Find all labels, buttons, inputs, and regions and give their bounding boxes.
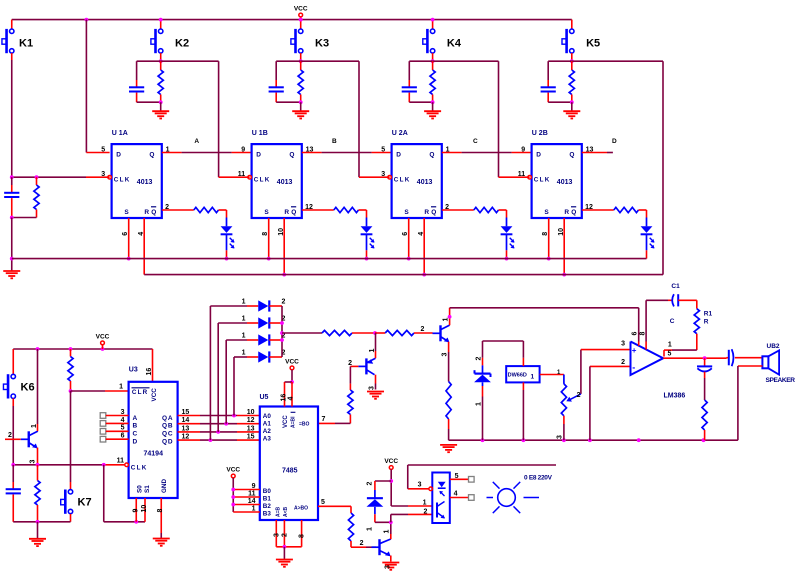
svg-text:1: 1 xyxy=(242,298,246,305)
svg-text:4013: 4013 xyxy=(277,179,293,186)
svg-text:VCC: VCC xyxy=(226,467,240,474)
svg-text:2: 2 xyxy=(421,326,425,333)
svg-text:A2: A2 xyxy=(263,428,272,435)
svg-text:QA: QA xyxy=(162,415,173,422)
svg-text:B2: B2 xyxy=(263,503,272,510)
svg-text:U5: U5 xyxy=(260,394,269,401)
svg-text:Q: Q xyxy=(569,152,574,159)
svg-text:U3: U3 xyxy=(129,366,138,373)
svg-text:2: 2 xyxy=(360,540,364,547)
svg-text:6: 6 xyxy=(632,332,639,336)
svg-text:CLK: CLK xyxy=(114,177,131,184)
svg-text:7485: 7485 xyxy=(282,467,298,474)
svg-text:3: 3 xyxy=(273,533,280,537)
svg-text:15: 15 xyxy=(247,434,255,441)
svg-text:C: C xyxy=(133,431,138,438)
svg-text:B3: B3 xyxy=(263,511,272,518)
svg-text:9: 9 xyxy=(241,146,245,153)
svg-text:4013: 4013 xyxy=(137,179,153,186)
svg-text:2: 2 xyxy=(577,392,581,399)
svg-text:R: R xyxy=(284,209,289,216)
svg-text:5: 5 xyxy=(668,351,672,358)
svg-text:11: 11 xyxy=(238,171,246,178)
svg-text:5: 5 xyxy=(121,425,125,432)
svg-text:1: 1 xyxy=(384,530,391,534)
svg-text:CLR: CLR xyxy=(132,389,149,396)
svg-text:8: 8 xyxy=(299,534,306,538)
svg-text:D: D xyxy=(612,138,617,145)
svg-text:16: 16 xyxy=(146,368,153,376)
svg-text:K1: K1 xyxy=(19,38,33,50)
svg-text:D: D xyxy=(116,152,121,159)
svg-text:7: 7 xyxy=(322,416,326,423)
svg-text:U 1B: U 1B xyxy=(252,130,268,137)
svg-text:2: 2 xyxy=(348,360,352,367)
svg-text:1: 1 xyxy=(367,527,374,531)
svg-text:Q: Q xyxy=(571,209,576,216)
svg-text:S: S xyxy=(544,209,549,216)
svg-text:U 2A: U 2A xyxy=(392,130,408,137)
svg-text:QD: QD xyxy=(162,438,173,445)
svg-text:4013: 4013 xyxy=(417,179,433,186)
svg-text:B: B xyxy=(133,423,138,430)
svg-text:D: D xyxy=(133,438,138,445)
svg-text:5: 5 xyxy=(321,499,325,506)
svg-text:9: 9 xyxy=(133,509,140,513)
svg-text:CLK: CLK xyxy=(131,465,148,472)
svg-text:13: 13 xyxy=(247,425,255,432)
svg-text:1: 1 xyxy=(242,349,246,356)
svg-text:14: 14 xyxy=(248,498,256,505)
svg-text:4: 4 xyxy=(288,397,295,401)
svg-text:QB: QB xyxy=(162,423,173,430)
svg-text:1: 1 xyxy=(443,318,450,322)
svg-text:A>BO: A>BO xyxy=(294,506,308,512)
svg-text:11: 11 xyxy=(248,490,256,497)
svg-text:D: D xyxy=(396,152,401,159)
svg-text:UB2: UB2 xyxy=(767,343,780,350)
svg-text:VCC: VCC xyxy=(384,458,398,465)
svg-text:K7: K7 xyxy=(78,497,92,509)
svg-text:2: 2 xyxy=(282,298,286,305)
svg-text:4: 4 xyxy=(121,417,125,424)
svg-text:Q: Q xyxy=(151,209,156,216)
svg-text:1: 1 xyxy=(668,342,672,349)
svg-text:2: 2 xyxy=(282,533,289,537)
svg-text:5: 5 xyxy=(381,146,385,153)
svg-text:VCC: VCC xyxy=(285,359,299,366)
svg-text:A1: A1 xyxy=(263,421,272,428)
svg-text:8: 8 xyxy=(639,332,646,336)
svg-text:4: 4 xyxy=(454,491,458,498)
svg-text:S: S xyxy=(404,209,409,216)
svg-text:R1: R1 xyxy=(704,311,713,318)
svg-text:3: 3 xyxy=(30,460,37,464)
svg-text:VCC: VCC xyxy=(294,6,308,13)
svg-text:A3: A3 xyxy=(263,436,272,443)
svg-text:A<B: A<B xyxy=(283,506,289,517)
svg-text:B: B xyxy=(332,138,337,145)
svg-text:-: - xyxy=(632,362,635,372)
svg-text:B1: B1 xyxy=(263,496,272,503)
svg-text:1: 1 xyxy=(242,332,246,339)
svg-text:10: 10 xyxy=(247,409,255,416)
svg-text:K3: K3 xyxy=(315,38,329,50)
svg-text:K4: K4 xyxy=(447,38,462,50)
svg-text:Q: Q xyxy=(431,209,436,216)
svg-text:11: 11 xyxy=(117,458,125,465)
svg-text:2: 2 xyxy=(423,509,427,516)
svg-text:1: 1 xyxy=(119,383,123,390)
svg-text:2: 2 xyxy=(8,432,12,439)
svg-text:C: C xyxy=(670,318,675,325)
svg-text:DW66D: DW66D xyxy=(508,373,527,379)
svg-text:15: 15 xyxy=(182,409,190,416)
svg-text:S0: S0 xyxy=(137,485,144,493)
svg-text:U 2B: U 2B xyxy=(532,130,548,137)
svg-text:B0: B0 xyxy=(263,488,272,495)
svg-text:CLK: CLK xyxy=(534,177,551,184)
svg-text:3: 3 xyxy=(441,353,448,357)
svg-text:GND: GND xyxy=(161,479,168,493)
svg-text:K2: K2 xyxy=(175,38,189,50)
svg-text:3: 3 xyxy=(385,565,392,569)
svg-text:R: R xyxy=(704,319,709,326)
svg-text:A=BI: A=BI xyxy=(291,416,297,428)
svg-text:CLK: CLK xyxy=(254,177,271,184)
svg-text:6: 6 xyxy=(402,232,409,236)
svg-text:6: 6 xyxy=(122,232,129,236)
svg-text:2: 2 xyxy=(621,359,625,366)
svg-text:VCC: VCC xyxy=(151,388,158,402)
svg-text:10: 10 xyxy=(141,505,148,513)
svg-text:8: 8 xyxy=(542,232,549,236)
svg-text:S: S xyxy=(264,209,269,216)
svg-text:11: 11 xyxy=(518,171,526,178)
svg-text:CLK: CLK xyxy=(394,177,411,184)
svg-text:3: 3 xyxy=(121,409,125,416)
svg-text:5: 5 xyxy=(455,473,459,480)
svg-text:Q: Q xyxy=(429,152,434,159)
svg-text:14: 14 xyxy=(182,417,190,424)
svg-text:1: 1 xyxy=(31,424,38,428)
svg-text:74194: 74194 xyxy=(144,450,164,457)
svg-text:12: 12 xyxy=(182,434,190,441)
svg-text:A0: A0 xyxy=(263,413,272,420)
svg-text:3: 3 xyxy=(621,340,625,347)
svg-text:+: + xyxy=(632,346,637,355)
svg-text:4013: 4013 xyxy=(557,179,573,186)
svg-text:1: 1 xyxy=(252,505,256,512)
svg-text:Q: Q xyxy=(149,152,154,159)
svg-text:D: D xyxy=(256,152,261,159)
svg-text:SPEAKER: SPEAKER xyxy=(766,377,796,384)
svg-text:6: 6 xyxy=(121,433,125,440)
svg-text:3: 3 xyxy=(368,386,375,390)
svg-text:2: 2 xyxy=(367,482,374,486)
svg-text:A=B: A=B xyxy=(276,506,282,517)
svg-text:C1: C1 xyxy=(671,283,680,290)
svg-text:9: 9 xyxy=(521,146,525,153)
svg-text:12: 12 xyxy=(247,417,255,424)
svg-text:R: R xyxy=(564,209,569,216)
svg-text:8: 8 xyxy=(157,509,164,513)
svg-text:VCC: VCC xyxy=(96,334,110,341)
svg-text:0 E8 220V: 0 E8 220V xyxy=(524,474,553,481)
svg-text:K5: K5 xyxy=(586,38,600,50)
svg-text:1: 1 xyxy=(475,402,482,406)
svg-text:3: 3 xyxy=(418,482,422,489)
svg-text:3: 3 xyxy=(381,171,385,178)
svg-text:Q: Q xyxy=(289,152,294,159)
svg-text:K6: K6 xyxy=(21,382,35,394)
svg-text:R: R xyxy=(144,209,149,216)
svg-text:VCC: VCC xyxy=(283,415,289,428)
svg-text:3: 3 xyxy=(557,435,564,439)
svg-text:C: C xyxy=(473,138,478,145)
svg-text:Q: Q xyxy=(291,209,296,216)
svg-text:1: 1 xyxy=(531,374,535,381)
svg-text:16: 16 xyxy=(280,394,287,402)
svg-text:R: R xyxy=(424,209,429,216)
svg-text:1: 1 xyxy=(423,499,427,506)
svg-text:U 1A: U 1A xyxy=(112,130,128,137)
svg-text:=BO: =BO xyxy=(299,422,310,428)
svg-text:A: A xyxy=(194,138,199,145)
svg-text:1: 1 xyxy=(369,349,376,353)
svg-text:S1: S1 xyxy=(144,485,151,493)
svg-text:S: S xyxy=(124,209,129,216)
svg-text:5: 5 xyxy=(101,146,105,153)
svg-text:8: 8 xyxy=(262,232,269,236)
svg-text:D: D xyxy=(536,152,541,159)
svg-text:LM386: LM386 xyxy=(664,393,686,400)
svg-text:2: 2 xyxy=(475,357,482,361)
svg-text:1: 1 xyxy=(242,315,246,322)
svg-text:A: A xyxy=(133,415,138,422)
svg-text:13: 13 xyxy=(182,425,190,432)
svg-text:QC: QC xyxy=(162,431,173,438)
svg-text:9: 9 xyxy=(252,483,256,490)
